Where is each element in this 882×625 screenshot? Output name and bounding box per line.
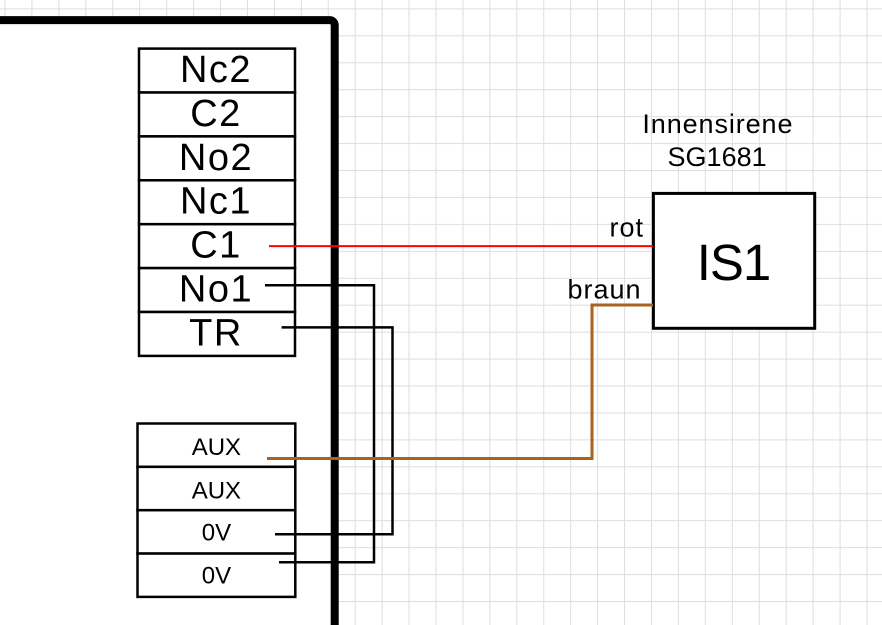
svg-text:0V: 0V [202, 519, 231, 546]
svg-text:rot: rot [609, 213, 644, 243]
svg-text:SG1681: SG1681 [668, 142, 767, 172]
svg-text:C2: C2 [190, 93, 242, 135]
svg-text:AUX: AUX [192, 434, 241, 461]
svg-text:braun: braun [567, 274, 641, 304]
svg-text:C1: C1 [190, 225, 242, 267]
svg-text:AUX: AUX [192, 477, 241, 504]
svg-text:0V: 0V [202, 563, 231, 590]
svg-text:No1: No1 [179, 269, 253, 311]
svg-text:IS1: IS1 [697, 234, 771, 291]
svg-text:Innensirene: Innensirene [642, 109, 793, 139]
svg-text:TR: TR [189, 312, 243, 354]
svg-text:Nc2: Nc2 [180, 49, 252, 91]
svg-text:Nc1: Nc1 [180, 181, 252, 223]
svg-text:No2: No2 [179, 137, 253, 179]
